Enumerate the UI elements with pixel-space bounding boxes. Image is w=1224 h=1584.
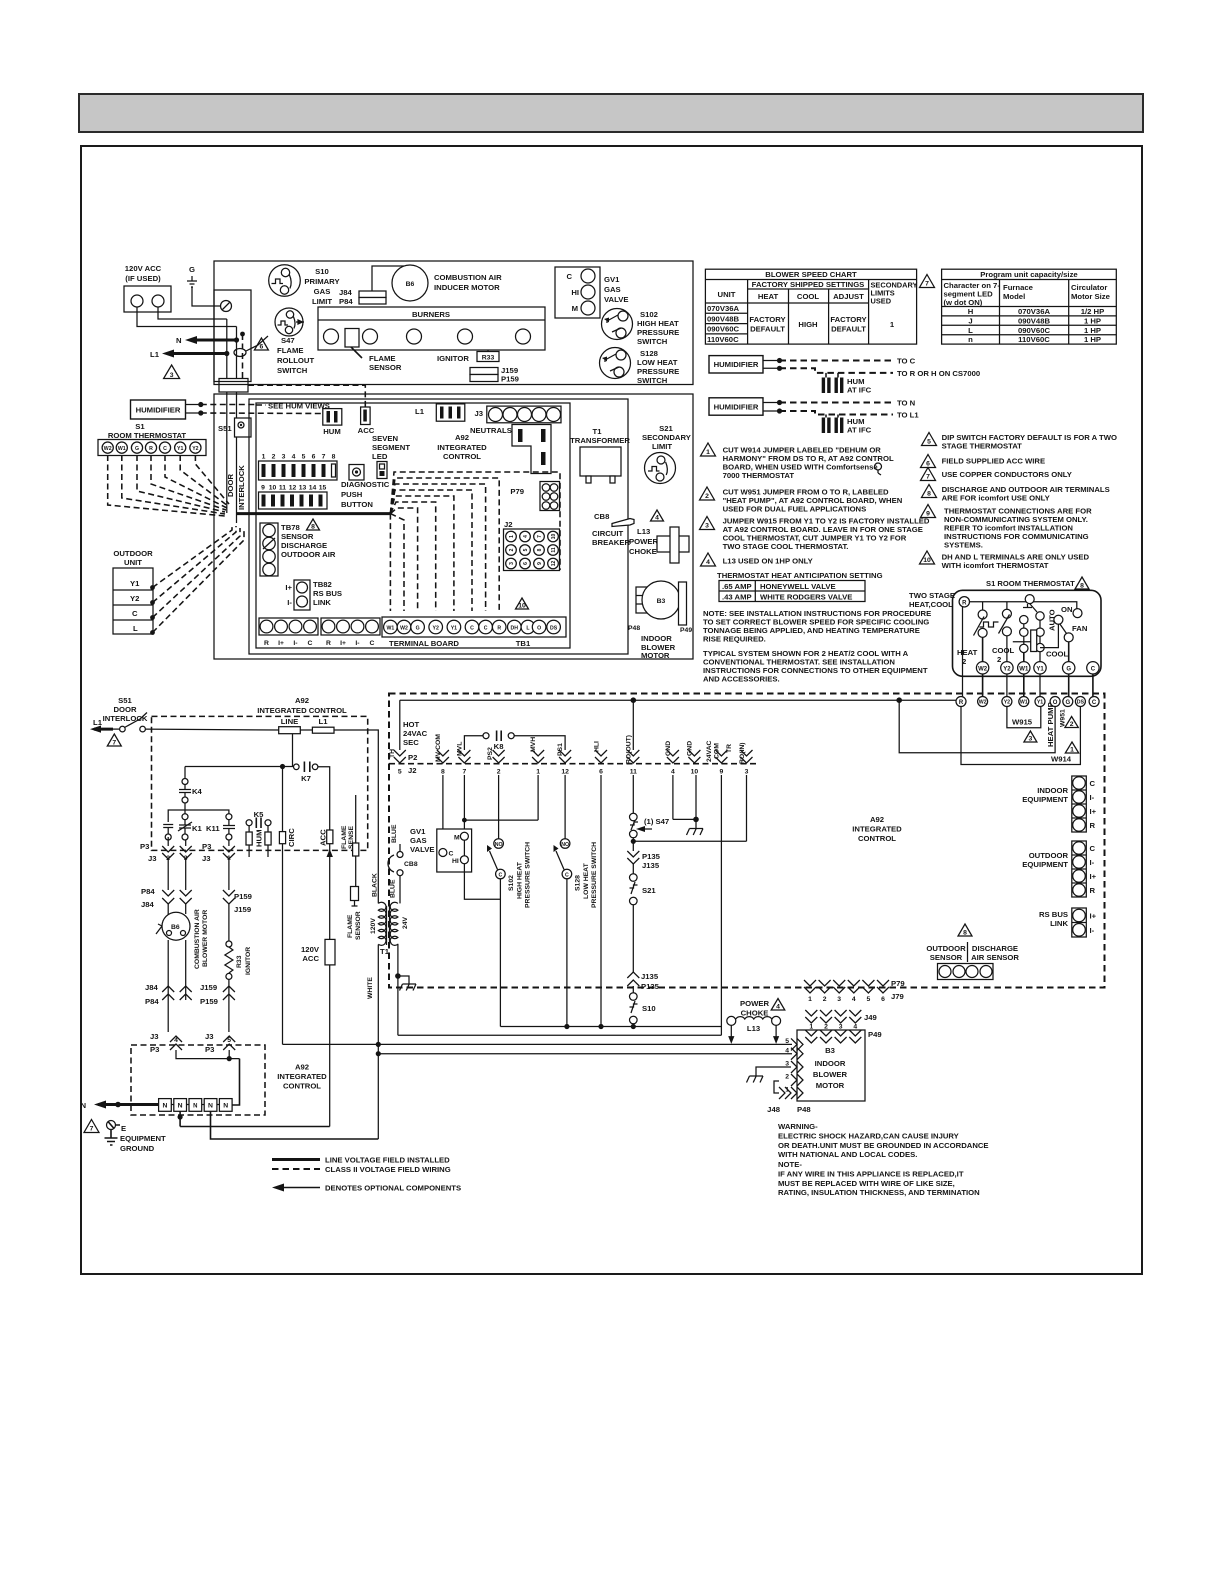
svg-text:WHITE: WHITE xyxy=(367,977,374,999)
svg-text:P48: P48 xyxy=(797,1105,811,1114)
svg-text:S47: S47 xyxy=(281,336,295,345)
svg-text:AT IFC: AT IFC xyxy=(847,386,872,395)
svg-text:5: 5 xyxy=(398,769,402,776)
MVL wire to gas valve M xyxy=(463,775,465,832)
relay board dashed box xyxy=(152,716,368,850)
svg-text:NEUTRALS: NEUTRALS xyxy=(470,426,512,435)
svg-text:S21: S21 xyxy=(659,424,673,433)
svg-text:I-: I- xyxy=(293,640,297,647)
svg-text:Y2: Y2 xyxy=(433,626,439,632)
svg-text:SWITCH: SWITCH xyxy=(637,376,668,385)
equipment ground xyxy=(84,1120,166,1154)
B3 ground xyxy=(747,1067,792,1083)
svg-text:7000 THERMOSTAT: 7000 THERMOSTAT xyxy=(723,471,795,480)
svg-text:TR: TR xyxy=(726,744,733,753)
svg-text:C: C xyxy=(449,851,454,858)
svg-text:4: 4 xyxy=(785,1047,789,1054)
svg-text:13: 13 xyxy=(299,485,307,492)
svg-text:TH: TH xyxy=(389,749,396,758)
svg-text:IGNITOR: IGNITOR xyxy=(245,947,252,975)
svg-text:120V ACC: 120V ACC xyxy=(125,264,162,273)
120V ACC resistor xyxy=(301,939,335,1126)
svg-text:TO N: TO N xyxy=(897,399,916,408)
indoor equipment terminals xyxy=(1022,776,1096,832)
svg-text:PRESSURE SWITCH: PRESSURE SWITCH xyxy=(525,842,532,908)
svg-text:LED: LED xyxy=(372,452,388,461)
flame rollout switch S47 xyxy=(275,308,314,375)
svg-text:L: L xyxy=(133,624,138,633)
svg-text:R: R xyxy=(264,640,269,647)
svg-text:LINK: LINK xyxy=(313,598,331,607)
svg-text:n: n xyxy=(968,335,973,344)
svg-text:J3: J3 xyxy=(148,854,157,863)
A92 pcb box xyxy=(256,403,570,648)
svg-text:4: 4 xyxy=(852,996,856,1003)
svg-text:AIR SENSOR: AIR SENSOR xyxy=(971,953,1019,962)
pressure switch S102 ladder xyxy=(487,775,532,1027)
svg-text:S51: S51 xyxy=(218,424,232,433)
svg-text:6: 6 xyxy=(523,562,529,565)
S51 door interlock switch xyxy=(90,696,148,747)
svg-text:SECONDARY: SECONDARY xyxy=(642,433,691,442)
svg-text:1 HP: 1 HP xyxy=(1084,335,1101,344)
svg-text:I-: I- xyxy=(355,640,359,647)
B3 pin chevrons xyxy=(767,1038,811,1114)
svg-text:.43 AMP: .43 AMP xyxy=(722,593,752,602)
svg-text:CB8: CB8 xyxy=(594,512,610,521)
svg-text:J3: J3 xyxy=(474,409,483,418)
svg-text:AND ACCESSORIES.: AND ACCESSORIES. xyxy=(703,675,780,684)
svg-text:N: N xyxy=(163,1103,168,1110)
svg-text:MOTOR: MOTOR xyxy=(816,1081,845,1090)
note triangle 4 xyxy=(701,553,813,566)
svg-text:N: N xyxy=(80,1101,86,1110)
svg-text:9: 9 xyxy=(720,769,724,776)
A92 integrated control dashed enclosure xyxy=(389,694,1105,988)
svg-text:S1 ROOM THERMOSTAT: S1 ROOM THERMOSTAT xyxy=(986,579,1075,588)
svg-text:BLOWER MOTOR: BLOWER MOTOR xyxy=(202,910,209,967)
svg-text:W1: W1 xyxy=(118,446,126,452)
svg-text:HUMIDIFIER: HUMIDIFIER xyxy=(714,360,759,369)
svg-text:LIMIT: LIMIT xyxy=(312,297,332,306)
control enclosure box xyxy=(249,399,628,654)
svg-text:W1: W1 xyxy=(1019,666,1029,672)
24VAC COM wire xyxy=(720,775,722,1035)
svg-text:A92: A92 xyxy=(870,815,884,824)
svg-text:IF ANY WIRE IN THIS APPLIANCE: IF ANY WIRE IN THIS APPLIANCE IS REPLACE… xyxy=(778,1169,964,1178)
svg-text:C: C xyxy=(370,640,375,647)
svg-text:P48: P48 xyxy=(628,625,640,632)
svg-text:ADJUST: ADJUST xyxy=(833,292,864,301)
svg-text:HIGH HEAT: HIGH HEAT xyxy=(517,861,524,899)
svg-text:Motor Size: Motor Size xyxy=(1071,292,1111,301)
svg-text:R: R xyxy=(497,626,501,632)
low heat pressure switch S128 xyxy=(600,348,680,386)
humidifier box xyxy=(131,400,204,419)
warning triangle 10 xyxy=(516,598,529,610)
svg-text:RO(IN): RO(IN) xyxy=(739,742,746,764)
svg-text:GND: GND xyxy=(687,741,694,756)
svg-text:I-: I- xyxy=(287,598,292,607)
jumper W914 DS wire xyxy=(961,707,1080,765)
svg-text:CIRC: CIRC xyxy=(287,828,296,847)
svg-text:14: 14 xyxy=(309,485,317,492)
svg-text:11: 11 xyxy=(551,547,557,553)
svg-text:SEGMENT: SEGMENT xyxy=(372,443,410,452)
svg-text:11: 11 xyxy=(279,485,286,492)
bus to choke and blower xyxy=(283,1043,793,1045)
resistor R33 xyxy=(477,350,499,362)
svg-text:E: E xyxy=(121,1124,126,1133)
connector L1 xyxy=(415,404,465,421)
note triangle 7 xyxy=(921,468,1072,481)
wire to R or H xyxy=(780,368,981,378)
svg-text:8: 8 xyxy=(441,769,445,776)
svg-text:4: 4 xyxy=(174,1037,178,1044)
svg-text:M: M xyxy=(572,304,578,313)
svg-text:24V: 24V xyxy=(402,916,409,929)
svg-text:I-: I- xyxy=(1090,793,1095,802)
svg-text:TO L1: TO L1 xyxy=(897,411,919,420)
warning triangle 6 near rollout xyxy=(254,338,268,351)
svg-text:GAS: GAS xyxy=(410,836,427,845)
svg-text:NO: NO xyxy=(495,842,503,848)
svg-text:A92: A92 xyxy=(295,1063,309,1072)
svg-text:4: 4 xyxy=(671,769,675,776)
note triangle 6 xyxy=(921,455,1046,468)
svg-text:12: 12 xyxy=(561,769,569,776)
svg-text:7: 7 xyxy=(463,769,467,776)
svg-text:POWER: POWER xyxy=(740,999,769,1008)
svg-text:USE COPPER CONDUCTORS ONLY: USE COPPER CONDUCTORS ONLY xyxy=(942,470,1072,479)
pressure switch S128 ladder xyxy=(554,775,599,1029)
contact K8 xyxy=(464,731,565,752)
svg-text:FLAME: FLAME xyxy=(369,354,395,363)
P3 J3 chevrons xyxy=(140,837,235,863)
svg-text:USED: USED xyxy=(871,297,892,306)
svg-text:090V60C: 090V60C xyxy=(707,325,740,334)
svg-text:P2: P2 xyxy=(408,753,417,762)
svg-text:SWITCH: SWITCH xyxy=(277,366,308,375)
svg-text:K4: K4 xyxy=(192,787,203,796)
24V secondary ground xyxy=(395,944,416,1036)
connector P79 xyxy=(510,482,559,511)
indoor blower motor B3 xyxy=(628,581,692,660)
svg-text:P49: P49 xyxy=(680,627,692,634)
svg-text:G: G xyxy=(416,626,420,632)
svg-text:5: 5 xyxy=(227,1037,231,1044)
svg-text:S10: S10 xyxy=(642,1004,656,1013)
svg-text:PRESSURE: PRESSURE xyxy=(637,367,679,376)
svg-text:SEE HUM VIEWS: SEE HUM VIEWS xyxy=(268,402,330,411)
heat stage switch xyxy=(974,602,999,662)
svg-text:2: 2 xyxy=(705,493,709,500)
wires inside lower board xyxy=(176,1050,240,1105)
svg-text:HIGH HEAT: HIGH HEAT xyxy=(637,319,679,328)
svg-text:8: 8 xyxy=(311,524,315,531)
svg-text:STAGE THERMOSTAT: STAGE THERMOSTAT xyxy=(942,442,1023,451)
svg-text:PRIMARY: PRIMARY xyxy=(304,277,339,286)
svg-text:2: 2 xyxy=(785,1074,789,1081)
svg-text:DEFAULT: DEFAULT xyxy=(831,325,866,334)
anticipator contact xyxy=(1013,595,1069,662)
svg-text:P3: P3 xyxy=(150,1045,159,1054)
svg-text:FLAME: FLAME xyxy=(341,825,348,849)
svg-text:HOT: HOT xyxy=(403,720,420,729)
svg-text:P84: P84 xyxy=(141,887,155,896)
transformer T1 xyxy=(570,427,630,483)
sensor connector xyxy=(938,964,994,980)
outdoor / discharge air sensor labels xyxy=(926,942,1019,962)
svg-text:1: 1 xyxy=(262,454,266,461)
svg-text:NO: NO xyxy=(561,842,569,848)
svg-text:4: 4 xyxy=(706,559,710,566)
svg-text:C: C xyxy=(163,446,167,452)
svg-text:B3: B3 xyxy=(825,1046,835,1055)
svg-text:VALVE: VALVE xyxy=(410,845,435,854)
svg-text:R: R xyxy=(326,640,331,647)
svg-text:K8: K8 xyxy=(494,742,505,751)
warning triangle 3 xyxy=(164,365,180,379)
svg-text:LINK: LINK xyxy=(1050,919,1068,928)
svg-text:2: 2 xyxy=(997,655,1001,664)
svg-text:K5: K5 xyxy=(254,810,265,819)
svg-text:COM: COM xyxy=(714,743,721,759)
note text xyxy=(778,1160,980,1197)
svg-text:K11: K11 xyxy=(206,824,220,833)
terminal strip R I+ I- C right xyxy=(321,618,380,647)
contact K1 xyxy=(178,814,203,840)
svg-text:P84: P84 xyxy=(339,297,353,306)
svg-text:G: G xyxy=(1065,700,1070,706)
svg-text:3: 3 xyxy=(282,454,286,461)
svg-text:FACTORY: FACTORY xyxy=(749,315,785,324)
svg-text:S1: S1 xyxy=(135,422,145,431)
svg-text:7: 7 xyxy=(90,1126,94,1133)
svg-text:S102: S102 xyxy=(508,875,515,891)
svg-text:A92: A92 xyxy=(295,696,309,705)
svg-text:SWITCH: SWITCH xyxy=(637,337,668,346)
outdoor unit dashed wires xyxy=(153,524,245,633)
combustion air blower motor B6 xyxy=(156,904,209,969)
svg-text:Furnace: Furnace xyxy=(1003,283,1034,292)
svg-text:P159: P159 xyxy=(200,997,218,1006)
svg-text:N: N xyxy=(193,1104,197,1110)
connector J84 P84 xyxy=(339,288,386,306)
resistor CIRC xyxy=(279,767,296,1045)
ignitor resistor R33 xyxy=(225,904,252,979)
svg-text:WHITE RODGERS VALVE: WHITE RODGERS VALVE xyxy=(760,593,852,602)
svg-text:CLASS II VOLTAGE FIELD WIRING: CLASS II VOLTAGE FIELD WIRING xyxy=(325,1165,451,1174)
svg-text:COMBUSTION AIR: COMBUSTION AIR xyxy=(194,909,201,969)
warning triangle 4 by choke xyxy=(651,510,664,522)
svg-text:COOL: COOL xyxy=(797,292,820,301)
svg-text:HEAT: HEAT xyxy=(758,292,779,301)
svg-text:HEAT PUMP: HEAT PUMP xyxy=(1046,702,1055,747)
terminal strip R I+ I- C left xyxy=(259,618,318,647)
svg-text:1: 1 xyxy=(808,996,812,1003)
wire from 120V ACC to N bus xyxy=(158,307,227,319)
svg-text:R: R xyxy=(962,600,967,606)
thermostat dashed wires fanning right xyxy=(108,455,229,516)
S51 door interlock switch xyxy=(218,418,251,510)
svg-text:MV COM: MV COM xyxy=(435,734,442,762)
svg-text:BLACK: BLACK xyxy=(372,873,379,897)
svg-text:NOTE-: NOTE- xyxy=(778,1160,802,1169)
internal supply wire xyxy=(970,602,1077,609)
svg-text:1: 1 xyxy=(1070,747,1074,754)
connector P79 J79 row xyxy=(804,979,905,1003)
svg-text:12: 12 xyxy=(289,485,297,492)
svg-text:INTERLOCK: INTERLOCK xyxy=(237,465,246,510)
svg-text:K1: K1 xyxy=(192,824,203,833)
svg-text:J48: J48 xyxy=(767,1105,781,1114)
hot 24vac label xyxy=(389,720,428,775)
svg-text:1/2 HP: 1/2 HP xyxy=(1081,307,1105,316)
N return wires xyxy=(178,1111,379,1139)
svg-text:LINE VOLTAGE FIELD INSTALLED: LINE VOLTAGE FIELD INSTALLED xyxy=(325,1156,450,1165)
svg-text:(w dot ON): (w dot ON) xyxy=(944,298,983,307)
svg-text:P79: P79 xyxy=(510,487,524,496)
board terminal row xyxy=(956,697,1099,707)
rollout switch lead oval xyxy=(234,336,268,357)
120V ACC terminal box xyxy=(124,264,171,312)
svg-text:COOL: COOL xyxy=(992,646,1015,655)
svg-text:ACC: ACC xyxy=(302,954,319,963)
svg-text:CONTROL: CONTROL xyxy=(443,452,481,461)
svg-text:DIAGNOSTIC: DIAGNOSTIC xyxy=(341,480,390,489)
svg-text:S21: S21 xyxy=(642,886,656,895)
svg-text:BREAKER: BREAKER xyxy=(592,538,630,547)
J2 pin chevrons xyxy=(394,700,753,775)
note triangle 2 xyxy=(700,487,903,514)
P159 J159 chevrons xyxy=(223,859,252,914)
J84 P84 lower chevrons xyxy=(145,940,192,1032)
svg-text:4: 4 xyxy=(523,535,529,538)
svg-text:R: R xyxy=(149,446,153,452)
GND pins wires xyxy=(673,775,703,835)
svg-text:N: N xyxy=(176,336,182,345)
svg-text:070V36A: 070V36A xyxy=(1018,307,1051,316)
power choke L13 xyxy=(629,527,689,563)
svg-text:B6: B6 xyxy=(171,924,180,931)
svg-text:BLUE: BLUE xyxy=(391,824,398,843)
svg-text:3: 3 xyxy=(1029,736,1033,743)
svg-text:I+: I+ xyxy=(1090,807,1097,816)
svg-text:090V48B: 090V48B xyxy=(707,314,740,323)
RO(IN) wire to DS xyxy=(746,775,748,841)
svg-text:7: 7 xyxy=(925,281,929,288)
flame sensor electrode xyxy=(345,329,402,373)
terminal R xyxy=(959,597,969,607)
svg-text:C: C xyxy=(1090,844,1096,853)
J3 P3 chevrons into board xyxy=(150,1032,235,1054)
svg-text:J3: J3 xyxy=(205,1032,214,1041)
blower speed chart table xyxy=(705,269,917,344)
svg-text:A92: A92 xyxy=(455,433,469,442)
connector J49 P49 row xyxy=(805,1010,877,1031)
resistor ACC wire xyxy=(318,767,333,940)
svg-text:1: 1 xyxy=(536,769,540,776)
svg-text:10: 10 xyxy=(518,603,526,610)
svg-text:Y2: Y2 xyxy=(1004,700,1010,706)
svg-text:W2: W2 xyxy=(400,626,408,632)
program unit capacity table xyxy=(942,269,1117,344)
svg-text:RO(OUT): RO(OUT) xyxy=(626,735,633,764)
svg-text:TRANSFORMER: TRANSFORMER xyxy=(570,436,630,445)
high heat pressure switch S102 xyxy=(602,309,680,347)
svg-text:J2: J2 xyxy=(504,520,513,529)
thick class II feed line xyxy=(237,512,391,515)
svg-text:TB1: TB1 xyxy=(516,639,531,648)
svg-text:FACTORY: FACTORY xyxy=(830,315,866,324)
svg-text:POWER: POWER xyxy=(629,537,658,546)
warning triangle 8 by thermostat xyxy=(1075,577,1089,590)
svg-text:DISCHARGE: DISCHARGE xyxy=(281,541,327,550)
svg-text:K7: K7 xyxy=(301,774,311,783)
svg-text:R: R xyxy=(959,700,964,706)
svg-text:J84: J84 xyxy=(141,900,155,909)
svg-text:DENOTES OPTIONAL COMPONENTS: DENOTES OPTIONAL COMPONENTS xyxy=(325,1184,461,1193)
svg-text:AT IFC: AT IFC xyxy=(847,426,872,435)
vertical feed wire L1 xyxy=(236,327,238,524)
flame sensor rect xyxy=(347,857,362,940)
svg-text:L1: L1 xyxy=(150,350,160,359)
legend xyxy=(272,1156,461,1193)
svg-text:SENSOR: SENSOR xyxy=(355,911,362,940)
svg-text:HEAT: HEAT xyxy=(957,648,978,657)
svg-text:HONEYWELL VALVE: HONEYWELL VALVE xyxy=(760,582,836,591)
svg-text:RS BUS: RS BUS xyxy=(1039,910,1068,919)
svg-text:2: 2 xyxy=(272,454,276,461)
svg-text:L1: L1 xyxy=(93,718,103,727)
left sub-box xyxy=(214,290,251,382)
svg-text:CB8: CB8 xyxy=(404,861,418,868)
svg-text:SEVEN: SEVEN xyxy=(372,434,399,443)
svg-text:8: 8 xyxy=(963,930,967,937)
svg-text:L13 USED ON 1HP ONLY: L13 USED ON 1HP ONLY xyxy=(723,557,813,566)
L1 hot wire xyxy=(145,728,278,731)
outdoor equipment terminals xyxy=(1022,841,1096,897)
svg-text:HLI: HLI xyxy=(594,741,601,752)
svg-text:FACTORY SHIPPED SETTINGS: FACTORY SHIPPED SETTINGS xyxy=(752,280,865,289)
svg-text:OR DEATH.UNIT MUST BE GROUNDED: OR DEATH.UNIT MUST BE GROUNDED IN ACCORD… xyxy=(778,1141,989,1150)
transformer T1 xyxy=(367,873,409,1139)
ground G xyxy=(187,265,220,306)
svg-text:HI: HI xyxy=(571,288,579,297)
svg-text:1 HP: 1 HP xyxy=(1084,326,1101,335)
fan selector xyxy=(1040,605,1088,662)
svg-text:C: C xyxy=(1092,700,1097,706)
svg-text:MUST BE REPLACED WITH WIRE OF: MUST BE REPLACED WITH WIRE OF LIKE SIZE, xyxy=(778,1179,955,1188)
limit chain RO(OUT) xyxy=(627,775,669,1029)
neutrals block xyxy=(512,425,551,474)
svg-text:4: 4 xyxy=(655,515,659,522)
wire N with arrow xyxy=(176,336,239,345)
P84 J84 chevrons xyxy=(141,859,192,909)
note triangle 3 xyxy=(700,517,930,552)
primary gas limit S10 xyxy=(269,265,340,306)
svg-text:TERMINAL BOARD: TERMINAL BOARD xyxy=(389,639,459,648)
svg-text:CONTROL: CONTROL xyxy=(283,1082,321,1091)
svg-text:W2: W2 xyxy=(979,700,987,706)
svg-text:5: 5 xyxy=(867,996,871,1003)
svg-text:C: C xyxy=(308,640,313,647)
CB8 breaker on 24V xyxy=(388,844,418,903)
svg-text:J3: J3 xyxy=(150,1032,159,1041)
svg-text:PS1: PS1 xyxy=(557,743,564,756)
svg-text:C: C xyxy=(499,872,503,878)
